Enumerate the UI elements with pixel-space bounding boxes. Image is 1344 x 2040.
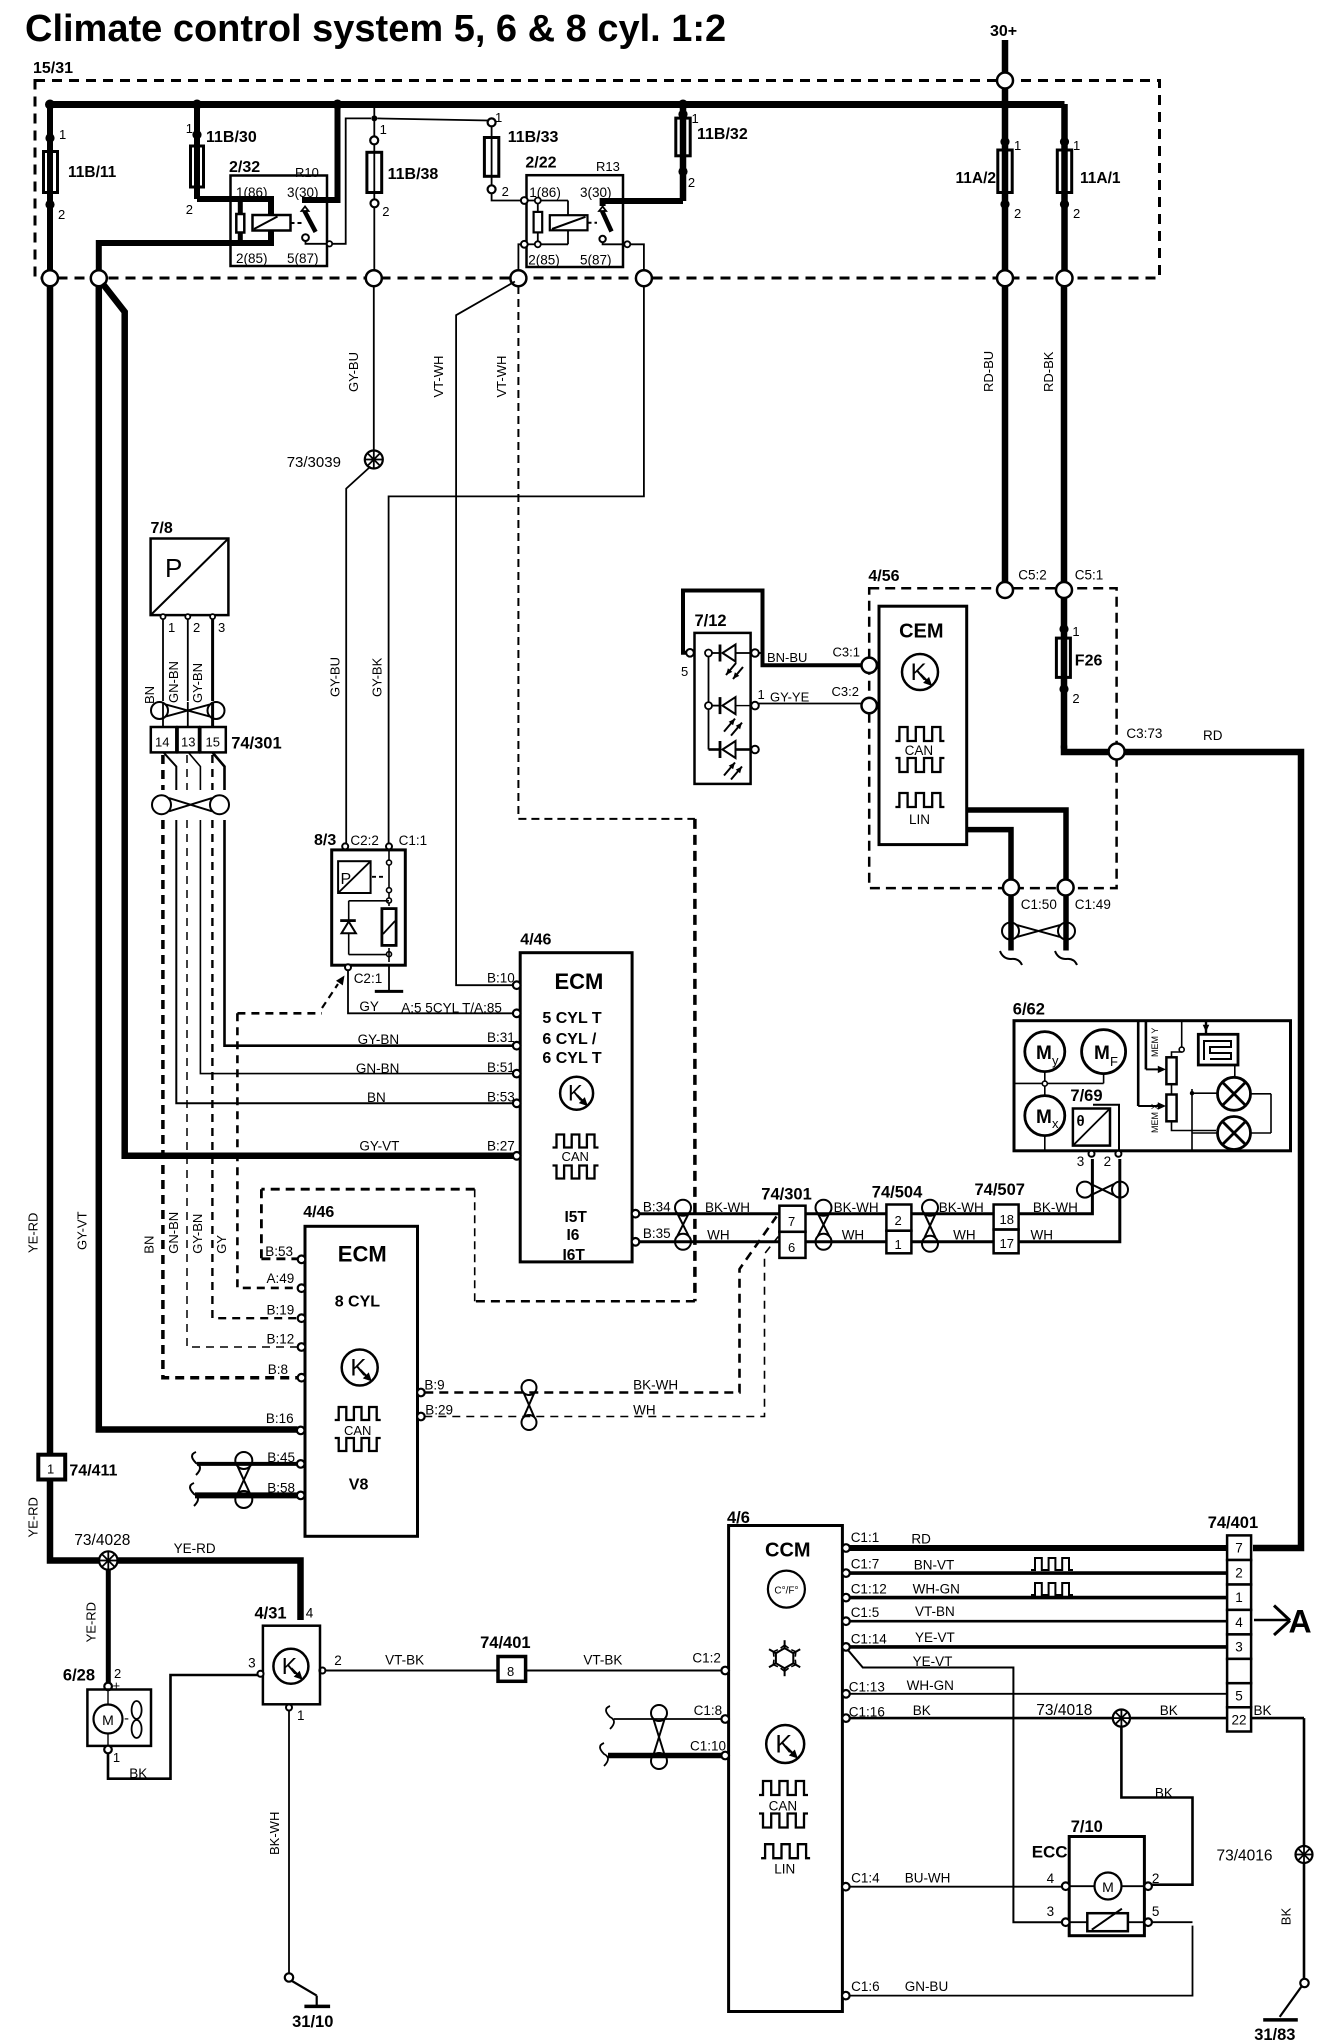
svg-text:3: 3 [218,620,225,635]
node GY-BK on 15/31 edge [636,270,652,286]
svg-text:x: x [1052,1116,1059,1131]
connector 74/301 A [151,727,282,752]
pin C3:1 [833,645,877,674]
connector 74/401 column [1208,1514,1258,1732]
relay 2/22 coil circuit [521,197,568,248]
svg-text:A:49: A:49 [267,1271,295,1286]
svg-text:B:10: B:10 [487,971,515,986]
svg-text:2(85): 2(85) [236,251,268,266]
svg-text:1: 1 [1235,1590,1243,1605]
svg-text:2: 2 [334,1653,342,1668]
svg-text:WH: WH [633,1402,656,1417]
svg-text:C°/F°: C°/F° [774,1586,798,1597]
svg-text:VT-BN: VT-BN [915,1604,955,1619]
svg-text:1: 1 [495,110,502,125]
wire GY-VT feed to B:16 [75,286,298,1430]
wire WH-GN into pin5 [1250,1694,1252,1696]
svg-text:WH: WH [1031,1228,1054,1243]
svg-text:BK: BK [913,1703,931,1718]
svg-text:1: 1 [168,620,175,635]
svg-text:C5:1: C5:1 [1075,568,1104,583]
svg-text:2: 2 [895,1213,902,1228]
svg-text:7: 7 [788,1214,795,1229]
svg-text:I6: I6 [567,1227,580,1244]
svg-text:7: 7 [1235,1541,1243,1556]
svg-text:I5T: I5T [565,1209,588,1226]
svg-text:GY: GY [214,1235,229,1254]
svg-text:YE-RD: YE-RD [26,1497,41,1537]
svg-text:WH: WH [707,1228,730,1243]
node RD-BU on 15/31 edge [997,270,1013,286]
svg-text:WH: WH [953,1228,976,1243]
svg-text:2(85): 2(85) [528,253,560,268]
svg-text:B:29: B:29 [425,1402,453,1417]
svg-text:2: 2 [1235,1565,1243,1580]
svg-text:74/411: 74/411 [69,1462,117,1479]
twisted pair after 74/301 [816,1200,832,1250]
svg-text:C1:14: C1:14 [851,1631,888,1646]
pin C1:16 wire BK [842,1703,1227,1722]
svg-text:5: 5 [1235,1688,1243,1703]
splice 73/3039 [287,451,383,472]
svg-text:B:19: B:19 [267,1302,295,1317]
thermistor in ECC [1069,1909,1144,1932]
dashed GY branch with arrow [237,976,344,1014]
svg-text:1: 1 [113,1750,120,1765]
svg-text:2/32: 2/32 [229,159,260,176]
svg-text:2: 2 [1072,691,1079,706]
fuse 11A/2 [955,104,1021,278]
svg-text:4/46: 4/46 [520,932,551,949]
fuse 11B/38 [367,108,439,219]
pin C3:2 [832,684,877,713]
wire YE-RD to 6/28 [84,1570,109,1683]
svg-text:15/31: 15/31 [33,60,73,77]
svg-text:6: 6 [788,1240,795,1255]
wire pin5 loop over 7/12 [681,591,862,680]
svg-text:B:8: B:8 [268,1362,288,1377]
pin 3 of 4/31 [248,1655,263,1676]
memory resistor MEM Y [1146,1021,1177,1085]
svg-text:CAN: CAN [769,1798,798,1813]
svg-text:C1:1: C1:1 [399,833,428,848]
label BN-BU [767,650,807,665]
svg-text:BK-WH: BK-WH [633,1377,678,1392]
wire GY-BN pin3 7/8 [190,619,213,703]
svg-text:BN: BN [142,1236,157,1254]
motor MF [1082,1030,1126,1074]
wire WH B:35 to 74/301 [639,1228,779,1243]
wire GY-VT feed to B:27 [103,284,515,1156]
wire GY-BN solid [225,820,515,1047]
splice 73/4018 [1036,1702,1177,1727]
svg-text:VT-WH: VT-WH [494,356,509,398]
svg-text:BK: BK [1155,1786,1173,1801]
svg-text:2: 2 [193,620,200,635]
pin C5:2 [997,568,1047,598]
svg-text:YE-VT: YE-VT [915,1630,955,1645]
svg-text:B:31: B:31 [487,1030,515,1045]
svg-text:GY-YE: GY-YE [770,690,810,705]
svg-text:M: M [1036,1043,1052,1064]
svg-text:MEM X: MEM X [1150,1103,1160,1133]
svg-text:6/28: 6/28 [63,1667,95,1685]
svg-text:6 CYL /: 6 CYL / [542,1031,597,1048]
svg-text:2: 2 [186,202,193,217]
svg-text:13: 13 [181,735,195,750]
twisted pair on risers [1077,1182,1128,1198]
svg-text:B:27: B:27 [487,1139,515,1154]
svg-text:BK-WH: BK-WH [834,1200,879,1215]
K symbol ECM 5-6cyl [560,1077,593,1110]
svg-text:7/8: 7/8 [151,520,173,537]
pin C1:1 wire RD [842,1530,1227,1552]
svg-text:VT-WH: VT-WH [431,356,446,398]
svg-text:11B/33: 11B/33 [508,129,559,146]
ECM 4/46 5-6cyl box [520,932,632,1262]
svg-text:15: 15 [206,735,220,750]
twisted pair B:45 B:58 [235,1452,252,1508]
pin C1:4 wire BU-WH [842,1870,1062,1890]
svg-text:4/56: 4/56 [868,568,899,585]
wire GY-BU lower [328,467,371,844]
wire B:45 [192,1450,298,1475]
pin C1:50 [1003,880,1057,912]
relay coil 2/22 [550,201,588,245]
node VT-WH on 15/31 edge [510,270,526,286]
svg-text:YE-RD: YE-RD [26,1213,41,1253]
svg-text:2/22: 2/22 [525,155,556,172]
svg-text:74/507: 74/507 [975,1181,1025,1199]
svg-text:5: 5 [1152,1904,1160,1919]
pin C1:13 wire WH-GN [842,1678,1227,1698]
svg-text:BK-WH: BK-WH [705,1200,750,1215]
svg-text:7/12: 7/12 [695,612,727,630]
svg-text:4/46: 4/46 [303,1204,334,1221]
pin C1:2 and wire VT-BK [319,1634,729,1681]
LIN symbol CEM [895,793,944,827]
ECM 4/46 8cyl box [303,1204,417,1536]
ECM 8cyl right pins [417,1377,453,1420]
connector 74/504 [872,1184,923,1254]
svg-text:C1:1: C1:1 [851,1530,880,1545]
svg-text:P: P [165,553,182,583]
snowflake symbol [769,1640,800,1676]
svg-text:ECM: ECM [555,969,604,994]
LED row 1 [705,645,763,680]
pin C1:12 wire WH-GN [842,1581,1227,1601]
K symbol CCM [766,1725,804,1763]
svg-text:3: 3 [1077,1154,1085,1169]
LED unit 7/12 box [695,612,751,784]
resistor in 8/3 [382,909,396,946]
svg-text:22: 22 [1231,1712,1246,1727]
wire BK-WH 74/504 to 74/507 [911,1200,993,1215]
wire WH 74/301 to 74/504 [806,1228,887,1243]
svg-text:BK: BK [1279,1908,1294,1926]
wire GY-YE [758,687,862,705]
svg-text:GY-VT: GY-VT [359,1139,399,1154]
fuse 11B/11 [44,104,117,278]
svg-text:5(87): 5(87) [580,253,612,268]
svg-text:3: 3 [1235,1640,1243,1655]
svg-text:3: 3 [248,1655,256,1670]
fuse 11B/33 [484,110,558,199]
svg-text:WH-GN: WH-GN [913,1581,960,1596]
wire relay 2/32 87 to fuse 11B/38 node [332,118,371,243]
svg-text:1: 1 [1072,624,1079,639]
svg-text:73/4016: 73/4016 [1217,1848,1273,1865]
wire YE-RD to 4/31 pin 4 [118,1541,301,1620]
svg-text:74/401: 74/401 [480,1634,530,1652]
svg-text:RD: RD [1203,728,1223,743]
variant label V8 [349,1476,369,1493]
svg-text:C1:10: C1:10 [690,1739,726,1754]
svg-text:2: 2 [688,175,695,190]
wire GY from C2:1 [348,970,513,1015]
svg-text:M: M [102,1712,114,1728]
svg-text:74/504: 74/504 [872,1184,923,1202]
svg-text:GY-BK: GY-BK [370,657,385,697]
svg-text:VT-BK: VT-BK [583,1653,622,1668]
svg-text:BK: BK [129,1766,147,1781]
twisted pair after ECM [675,1200,691,1250]
ECM 5-6cyl left pins [513,981,521,1159]
svg-text:2: 2 [58,207,65,222]
svg-text:A: A [1289,1604,1312,1640]
svg-text:ECC: ECC [1032,1843,1068,1862]
relay switch 2/32 [302,104,338,247]
svg-text:5: 5 [681,664,688,679]
connector 74/507 [975,1181,1025,1253]
svg-text:11B/11: 11B/11 [68,164,117,181]
svg-text:CAN: CAN [905,743,934,758]
svg-text:1: 1 [895,1237,902,1252]
svg-text:18: 18 [1000,1212,1014,1227]
wire BN dashed drop [161,755,165,790]
svg-text:1: 1 [1014,138,1021,153]
twisted pair C1:8 C1:10 [651,1705,667,1769]
svg-text:C1:7: C1:7 [851,1556,880,1571]
svg-text:θ: θ [1077,1113,1085,1130]
svg-text:RD-BK: RD-BK [1041,351,1056,392]
CAN symbol CCM [759,1781,808,1828]
svg-text:C5:2: C5:2 [1018,568,1047,583]
wire BK 6/28 to 4/31 pin3 [108,1675,258,1781]
svg-text:B:53: B:53 [265,1244,293,1259]
K symbol ECM 8cyl [342,1350,378,1386]
wire 7/69 pin2 internal [1093,1105,1119,1151]
wire GN-BN pin2 7/8 [166,619,188,703]
CAN symbol CEM [895,727,944,772]
node C3:73 [1109,726,1163,759]
wire BK-WH dashed B:9 [424,1217,776,1393]
svg-text:5 CYL T: 5 CYL T [542,1010,602,1027]
pin C1:10 wire [600,1739,729,1767]
svg-text:LIN: LIN [909,812,930,827]
svg-text:73/4018: 73/4018 [1036,1702,1092,1719]
svg-text:73/3039: 73/3039 [287,454,341,471]
svg-text:BK: BK [1160,1703,1178,1718]
pin C1:49 [1058,880,1111,912]
sensor 7/8 (P) [151,520,229,635]
svg-text:2: 2 [1152,1871,1160,1886]
pin label B:16 [266,1411,294,1426]
svg-text:2: 2 [1104,1154,1112,1169]
splice 73/4016 [1217,1846,1313,1865]
pin 1 of 4/31 [286,1705,305,1724]
svg-text:31/83: 31/83 [1254,2026,1295,2040]
lamp 1 [1218,1077,1251,1110]
heater element [1198,1021,1238,1065]
svg-text:C3:73: C3:73 [1126,726,1162,741]
wire relay 2/22 87 to node [630,244,644,270]
svg-text:74/301: 74/301 [231,734,281,752]
svg-text:4: 4 [1047,1871,1055,1886]
svg-text:6 CYL T: 6 CYL T [542,1050,602,1067]
P element in 8/3 [338,861,386,893]
twisted pair dashed pair [522,1380,537,1430]
svg-text:B:53: B:53 [487,1090,515,1105]
heater to lamp wire [1234,1065,1236,1077]
pin 2 of 4/31 [334,1653,342,1668]
svg-text:3: 3 [1047,1904,1055,1919]
module 4/31 [255,1605,321,1705]
wire BN pin1 7/8 [142,619,163,704]
wire below C1:49 [1055,896,1077,966]
svg-text:C1:4: C1:4 [851,1870,880,1885]
svg-text:GY-BU: GY-BU [346,352,361,392]
svg-text:1: 1 [186,121,193,136]
wire YE-VT branch to ECC pin3 [848,1650,1063,1923]
svg-text:74/401: 74/401 [1208,1514,1258,1532]
wire BK-WH 74/507 to 7/69 pin3 [1019,1159,1093,1215]
pin C2:1 of 8/3 [345,964,382,986]
svg-text:B:12: B:12 [267,1332,295,1347]
pin C5:1 [1056,568,1103,598]
connector 74/301 B [761,1186,811,1258]
wires into 74/301 [163,719,213,727]
svg-text:B:35: B:35 [643,1226,671,1241]
dashed actuator link 2/22 [588,222,598,224]
wire YE-RD to splice 73/4028 [26,1480,100,1561]
svg-text:C1:49: C1:49 [1075,897,1111,912]
wire BN dashed to B:8 [142,820,298,1378]
svg-text:CAN: CAN [562,1149,589,1164]
svg-text:2: 2 [1073,206,1080,221]
pin C1:7 wire BN-VT [842,1556,1227,1577]
svg-text:ECM: ECM [338,1241,387,1266]
wire YE-RD left feed [26,286,51,1454]
svg-text:BN: BN [142,686,157,704]
svg-text:Climate control system 5, 6 &: Climate control system 5, 6 & 8 cyl. 1:2 [25,8,726,50]
wire BK to ground 31/83 [1254,1863,1309,2040]
wire WH 74/504 to 74/507 [911,1228,993,1243]
svg-text:C1:8: C1:8 [694,1703,723,1718]
wire BK from splice to ECC pin2 [1121,1727,1192,1885]
fuse 11A/1 [1057,104,1121,278]
svg-text:1(86): 1(86) [529,185,561,200]
splice 73/4028 [74,1532,130,1570]
wire relay 2/22 85 to node [518,244,521,270]
LED row 2 [705,657,759,736]
CEM box [879,606,967,844]
svg-text:3(30): 3(30) [580,185,612,200]
wire BN solid [176,820,514,1105]
wire RD-BU [981,286,1005,582]
svg-text:YE-RD: YE-RD [84,1602,99,1642]
wire B:58 [190,1480,298,1506]
arrow to A [1254,1604,1312,1640]
svg-text:VT-BK: VT-BK [385,1653,424,1668]
svg-text:7/10: 7/10 [1071,1818,1103,1836]
wire WH dashed B:29 [424,1237,778,1418]
CEM 4/56 dashed box [868,568,1116,888]
CCM 4/6 box [727,1509,842,2012]
svg-text:BN-VT: BN-VT [914,1558,955,1573]
svg-text:RD: RD [911,1531,931,1546]
svg-text:y: y [1052,1053,1059,1068]
relay 2/32 R10 box and pin labels [229,159,327,266]
svg-text:YE-VT: YE-VT [913,1654,953,1669]
C/F symbol [768,1571,805,1608]
svg-text:BK-WH: BK-WH [939,1200,984,1215]
svg-text:GN-BN: GN-BN [166,1212,181,1254]
K symbol 4/31 [273,1649,308,1684]
title text [25,8,726,50]
wire WH 74/507 to 7/69 pin2 [1019,1159,1120,1243]
ECM 5-6cyl right pins B:34 B:35 [632,1200,671,1246]
twisted pair below CEM [1002,923,1075,940]
motor My [1025,1032,1065,1072]
wire BK-WH 4/31 pin1 to ground [267,1711,333,2031]
svg-text:GN-BN: GN-BN [166,661,181,703]
wire 11B/33 to relay 2/22 [492,193,521,201]
wire BK-WH B:34 to 74/301 [639,1200,779,1215]
node GY-BU on 15/31 edge [366,270,382,286]
wire GY-BN dashed drop [211,755,213,790]
svg-text:BK-WH: BK-WH [267,1812,282,1855]
svg-text:A:5 5CYL T/A:85: A:5 5CYL T/A:85 [401,1001,502,1016]
wire GY dashed to A:49 [214,1013,298,1288]
svg-text:M: M [1036,1107,1052,1128]
svg-text:+: + [113,1678,121,1693]
svg-text:17: 17 [1000,1236,1014,1251]
ECC 7/10 box [1032,1818,1145,1936]
pin 5 of 7/12 [686,649,694,657]
CAN symbol ECM 5-6cyl [553,1135,599,1179]
svg-text:2: 2 [1014,206,1021,221]
ground in 8/3 [375,965,403,991]
svg-text:11B/38: 11B/38 [388,166,439,183]
servo 7/69 [1070,1087,1110,1146]
svg-text:73/4028: 73/4028 [74,1532,130,1549]
wire 30+ bus [45,100,1065,110]
twisted pair symbol under 7/8 [151,702,225,719]
svg-text:7/69: 7/69 [1070,1087,1102,1105]
pin C1:6 wire GN-BU [842,1926,1193,2000]
svg-text:8 CYL: 8 CYL [335,1294,381,1311]
internal motor wiring 6/62 [1014,1072,1104,1151]
svg-text:4: 4 [306,1605,314,1620]
svg-text:4: 4 [1235,1615,1243,1630]
fuse 11B/32 [676,104,748,201]
wire BK after connector [1251,1703,1304,1846]
svg-text:LIN: LIN [774,1862,795,1877]
svg-text:4/31: 4/31 [255,1605,287,1623]
svg-text:B:16: B:16 [266,1411,294,1426]
pin C1:14 wire YE-VT [842,1630,1227,1651]
